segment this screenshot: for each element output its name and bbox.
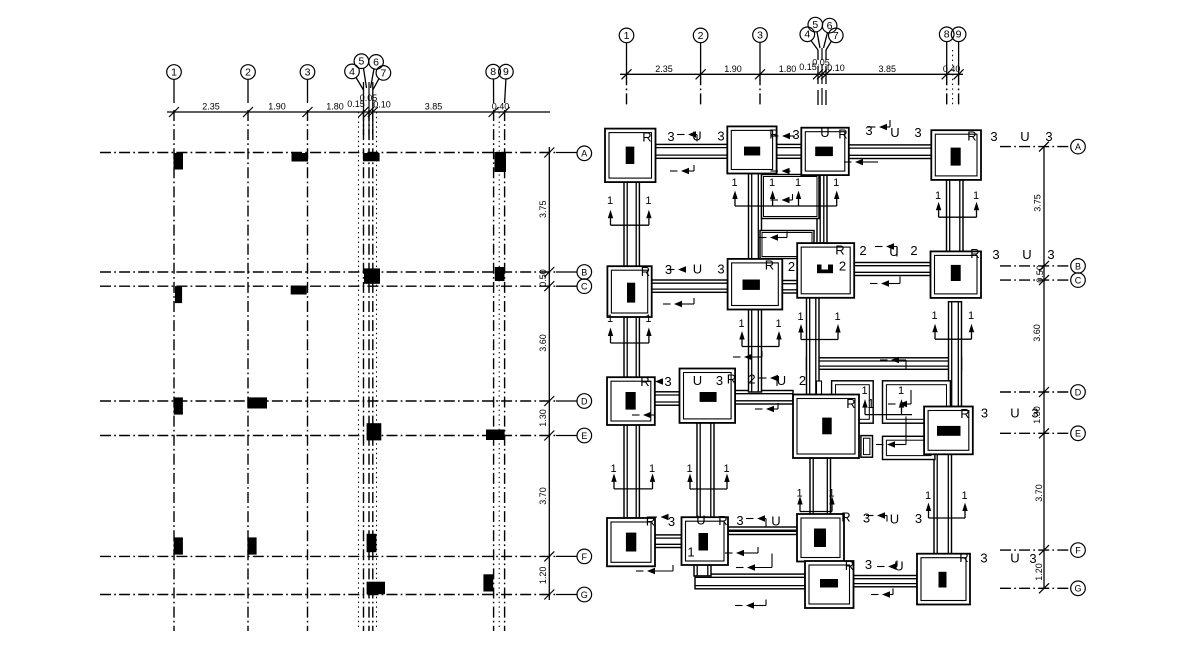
svg-text:2: 2 — [839, 259, 846, 274]
right plan grid bubble 6 — [822, 18, 837, 33]
left plan dimension tick — [303, 107, 313, 117]
beam loop between rows A-B grids 3-4/7 upper — [762, 175, 820, 219]
footing A4/7 — [801, 128, 849, 175]
svg-text:1: 1 — [925, 490, 931, 502]
right plan row F grid segment — [1000, 549, 1070, 551]
svg-text:3: 3 — [863, 511, 870, 526]
right plan right dimension line — [1043, 147, 1045, 588]
svg-text:B: B — [581, 267, 587, 277]
left plan grid lines 4-7 cluster (three close vertical lines) — [364, 82, 373, 631]
left plan column F4-7 — [367, 534, 377, 552]
svg-text:1.20: 1.20 — [538, 567, 548, 585]
svg-text:R: R — [959, 550, 968, 565]
svg-text:1: 1 — [607, 313, 613, 325]
leader arrow at loop row D-E — [888, 390, 911, 407]
svg-text:3: 3 — [980, 551, 987, 566]
left plan row F tick — [544, 551, 554, 561]
left plan grid bubble 1 — [167, 65, 182, 80]
beam stub at grid4/7 row D — [817, 381, 822, 397]
svg-text:1: 1 — [898, 385, 904, 397]
svg-text:1: 1 — [961, 490, 967, 502]
leader arrow at U beam F2-F4/7 — [746, 515, 766, 526]
svg-text:R: R — [765, 258, 774, 273]
svg-text:4: 4 — [804, 29, 810, 41]
right plan top dimension line — [620, 73, 963, 75]
svg-text:1.90: 1.90 — [724, 64, 742, 74]
beam loop row D-E left of grid8/9 upper-left — [832, 381, 874, 423]
left plan column D1 — [174, 397, 183, 414]
left plan column G4-7 — [367, 582, 385, 595]
svg-text:C: C — [1075, 276, 1082, 286]
svg-text:3: 3 — [1029, 551, 1036, 566]
left plan grid bubble 9 — [499, 64, 514, 79]
beam row D grid2-grid4/7 — [735, 391, 793, 405]
section mark 1-1 near footing R1 — [861, 385, 912, 415]
left plan grid line C (horizontal dash-dot) — [100, 285, 556, 287]
svg-text:3: 3 — [717, 262, 724, 277]
left plan column C1 — [175, 286, 182, 303]
footing B4/7 U2 column notch — [822, 265, 829, 270]
left plan column B4-7 — [364, 268, 380, 283]
svg-text:R: R — [967, 129, 976, 144]
left plan grid line A (horizontal dash-dot) — [100, 152, 556, 154]
svg-text:2: 2 — [698, 30, 704, 42]
svg-text:1: 1 — [968, 310, 974, 322]
left plan grid line 3 (vertical dash-dot) — [307, 110, 309, 631]
leader arrow rows A-B upper — [771, 168, 791, 174]
left plan slab edge dotted lines at cluster — [359, 112, 377, 630]
left plan grid line D (horizontal dash-dot) — [100, 400, 556, 402]
svg-text:1: 1 — [687, 545, 694, 560]
beam grid1 rowB-rowD — [624, 317, 639, 377]
leader arrow under beam row C — [663, 298, 694, 307]
beam row G grid4/7-grid8/9 — [854, 576, 918, 587]
left plan column A1 — [174, 153, 184, 170]
leader arrow above mid beam — [880, 357, 906, 369]
left plan grid line E (horizontal dash-dot) — [100, 435, 556, 437]
leader arrow bottom middle — [735, 600, 766, 609]
right plan row bubble B — [1071, 259, 1086, 274]
beam row B grid4/7-grid8/9 — [853, 263, 931, 276]
left plan dimension tick — [489, 107, 499, 117]
right plan row bubble A — [1071, 139, 1086, 154]
svg-text:1: 1 — [624, 30, 630, 42]
left plan grid line 9 (vertical dash-dot) — [504, 110, 506, 631]
left plan grid line G (horizontal dash-dot) — [100, 594, 556, 596]
section mark 1-1 on beam grid1 rowA-rowB — [607, 195, 652, 225]
footing F2 — [682, 517, 729, 565]
beam row D grid1-grid2 — [655, 392, 680, 405]
svg-text:R: R — [841, 510, 850, 525]
svg-text:3: 3 — [981, 406, 988, 421]
svg-text:R: R — [838, 127, 847, 142]
svg-text:8: 8 — [944, 29, 950, 41]
svg-text:3.85: 3.85 — [879, 64, 897, 74]
beam row C grid3-grid4/7 — [782, 281, 797, 294]
svg-text:3: 3 — [665, 262, 672, 277]
svg-text:U: U — [771, 514, 780, 529]
beam grid8/9 rowE-rowG — [934, 454, 952, 553]
left plan column A8-9 — [495, 152, 507, 172]
leader arrow near footing G4/7 bottom right — [871, 589, 893, 598]
svg-text:3: 3 — [305, 66, 311, 78]
svg-text:3.75: 3.75 — [1033, 194, 1043, 212]
footing B3 — [728, 259, 783, 310]
right plan grid bubble 4 — [800, 27, 815, 42]
beam row F grid2-grid4/7 — [728, 527, 797, 535]
right plan dimension tick — [755, 69, 765, 79]
beam grid4/7 rowD-rowF — [810, 458, 831, 514]
svg-text:2: 2 — [910, 243, 917, 258]
leader arrow in lower loop — [876, 417, 906, 448]
left plan grid bubble 2 — [241, 65, 256, 80]
svg-text:0.40: 0.40 — [943, 64, 961, 74]
beam row A grid4/7-grid8/9 — [849, 145, 932, 159]
svg-text:1: 1 — [797, 311, 803, 323]
svg-text:1: 1 — [769, 177, 775, 189]
footing B8/9 — [931, 251, 982, 298]
svg-text:E: E — [1075, 429, 1081, 439]
leader arrow row F right — [866, 512, 887, 521]
svg-text:F: F — [582, 552, 588, 562]
right plan row B grid segment — [1000, 265, 1070, 267]
right plan row D grid segment — [1000, 391, 1070, 393]
svg-text:2: 2 — [788, 259, 795, 274]
svg-text:G: G — [581, 590, 588, 600]
left plan grid bubble 8 — [486, 64, 501, 79]
svg-text:R: R — [846, 396, 855, 411]
right plan grid bubble 5 — [808, 17, 823, 32]
svg-text:U: U — [890, 512, 899, 527]
svg-text:3: 3 — [865, 123, 872, 138]
svg-text:1.80: 1.80 — [326, 102, 344, 112]
svg-text:3: 3 — [757, 29, 763, 41]
leader arrow under beam row B right — [870, 277, 900, 287]
svg-text:1.80: 1.80 — [779, 64, 797, 74]
svg-text:2: 2 — [859, 243, 866, 258]
svg-text:7: 7 — [833, 30, 839, 42]
right plan row E tick — [1039, 428, 1049, 438]
footing F4/7 — [797, 514, 844, 562]
svg-text:1: 1 — [686, 463, 692, 475]
svg-text:1: 1 — [645, 313, 651, 325]
svg-text:U: U — [820, 125, 829, 140]
svg-text:1: 1 — [607, 195, 613, 207]
leader arrow at footing D1 — [632, 412, 654, 418]
leader arrow right of beam row D — [755, 403, 778, 412]
svg-text:A: A — [581, 149, 587, 159]
section mark 1-1 on beam grid8/9 rowB-rowE — [931, 310, 974, 339]
svg-text:R: R — [646, 514, 655, 529]
svg-text:9: 9 — [503, 66, 509, 78]
right plan dimension ticks at cluster — [813, 69, 823, 79]
left plan column F1 — [174, 537, 183, 554]
right plan grid bubble 7 — [829, 28, 844, 43]
svg-text:C: C — [581, 282, 588, 292]
svg-text:R: R — [835, 243, 844, 258]
svg-text:U: U — [1010, 406, 1019, 421]
left plan row bubble D — [556, 400, 577, 402]
svg-text:3: 3 — [668, 514, 675, 529]
svg-text:3: 3 — [1047, 247, 1054, 262]
left plan grid bubble 3 — [300, 65, 315, 80]
beam loop row D-E left of grid8/9 upper-right — [883, 381, 951, 423]
section mark 1-1 on beam grid1 rowD-rowF — [610, 463, 655, 489]
right plan grid bubble 3 — [753, 28, 768, 43]
beam loop row D-E lower-left stub — [861, 436, 873, 458]
svg-text:2: 2 — [748, 372, 755, 387]
beam row A grid3-grid4/7 — [777, 144, 802, 158]
left plan grid line 8 (vertical dash-dot) — [493, 110, 495, 631]
left plan grid bubble 5 — [354, 54, 369, 69]
svg-text:3: 3 — [1031, 406, 1038, 421]
right plan row A grid segment — [1000, 146, 1070, 148]
right plan row G grid segment — [1000, 587, 1070, 589]
leader arrow under grid3 beam rowB-rowD — [733, 351, 762, 360]
left plan row bubble B — [556, 271, 577, 273]
svg-text:0.10: 0.10 — [373, 100, 391, 110]
left plan column B8-9 — [495, 267, 505, 281]
left plan grid line F (horizontal dash-dot) — [100, 555, 556, 557]
svg-text:3: 3 — [915, 511, 922, 526]
leader arrow row F left — [636, 565, 673, 574]
svg-text:R: R — [970, 246, 979, 261]
left plan row A tick — [544, 148, 554, 158]
section mark 1-1 on beam grid4/7 rowD-rowF — [796, 488, 834, 512]
right plan row C tick — [1039, 275, 1049, 285]
left plan dimension tick — [500, 107, 510, 117]
footing A3 — [727, 126, 776, 173]
svg-text:U: U — [777, 373, 786, 388]
svg-text:3: 3 — [667, 129, 674, 144]
left plan dimension tick — [243, 107, 253, 117]
right plan row bubble C — [1071, 273, 1086, 288]
leader arrow row A right of grid4/7 — [868, 120, 890, 130]
svg-text:3: 3 — [736, 513, 743, 528]
left plan column A3 — [292, 153, 309, 162]
right plan grid bubble 8 — [939, 27, 954, 42]
svg-text:3.75: 3.75 — [538, 200, 548, 218]
section mark 1-1 on beam grid2 rowD-rowF — [686, 463, 729, 489]
section mark 1-1 on beam grid3 rowB-rowD — [738, 318, 781, 347]
beam row G grid2-grid4/7 — [695, 574, 805, 589]
beam grid3 rowB-rowD — [749, 310, 762, 393]
left plan row bubble C — [556, 285, 577, 287]
svg-text:2: 2 — [799, 373, 806, 388]
svg-text:3.85: 3.85 — [425, 102, 443, 112]
left plan column F2 — [247, 537, 256, 554]
svg-text:0.50: 0.50 — [538, 269, 548, 287]
right plan dimension tick — [942, 69, 952, 79]
svg-text:3: 3 — [664, 374, 671, 389]
svg-text:U: U — [889, 244, 898, 259]
left plan row bubble A — [556, 152, 577, 154]
svg-text:0.50: 0.50 — [1035, 265, 1045, 283]
svg-text:1: 1 — [738, 318, 744, 330]
left plan dotted line between grids 8-9 — [498, 112, 500, 630]
right plan row G tick — [1039, 583, 1049, 593]
section mark 1-1 on beam grid4/7 rowB-rowD — [797, 311, 840, 340]
leader arrow row G at footing — [877, 561, 897, 570]
beam grid4/7 rowA-rowB — [817, 175, 827, 243]
beam grid2 rowF-rowG stub — [694, 564, 711, 576]
section mark 1-1 on beam grid8/9 rowE-rowG — [925, 490, 968, 518]
left plan top dimension line — [167, 111, 550, 113]
footing D1 — [607, 377, 655, 425]
beam grid1 rowA-rowB — [624, 182, 639, 266]
svg-text:1: 1 — [723, 463, 729, 475]
svg-text:F: F — [1075, 546, 1081, 556]
leader arrow at U beam D2-R1 — [759, 375, 778, 386]
svg-text:0.40: 0.40 — [492, 102, 510, 112]
leader arrow row F after footing F4/7 R — [650, 514, 669, 520]
left plan column A4-7 — [363, 153, 380, 161]
footing R1 — [793, 395, 859, 459]
svg-text:1: 1 — [171, 66, 177, 78]
beam grid4/7 rowB-rowD — [807, 298, 820, 395]
right plan grid lines 4-7 segments — [818, 48, 826, 105]
svg-text:3.60: 3.60 — [1032, 324, 1042, 342]
svg-text:U: U — [890, 125, 899, 140]
left plan column E8-9 — [486, 430, 505, 441]
svg-text:3: 3 — [717, 129, 724, 144]
svg-text:R: R — [727, 372, 736, 387]
left plan column G8-9 — [483, 574, 493, 591]
svg-text:U: U — [693, 373, 702, 388]
beam loop between rows A-B grids 3-4/7 lower — [760, 231, 814, 259]
leader arrow under beam A1-A3 — [670, 165, 694, 174]
svg-text:R: R — [642, 130, 651, 145]
beam grid8/9 rowB-rowE — [949, 302, 962, 407]
svg-text:6: 6 — [373, 56, 379, 68]
svg-text:3: 3 — [990, 129, 997, 144]
left plan grid line 2 (vertical dash-dot) — [247, 110, 249, 631]
svg-text:3: 3 — [914, 125, 921, 140]
beam grid8/9 rowA-rowB — [947, 180, 964, 252]
footing B1 — [607, 266, 651, 317]
svg-text:3: 3 — [716, 373, 723, 388]
left plan grid line B (horizontal dash-dot) — [100, 271, 556, 273]
right plan row D tick — [1039, 387, 1049, 397]
svg-text:U: U — [693, 262, 702, 277]
right plan dimension tick — [696, 69, 706, 79]
left plan row E tick — [544, 431, 554, 441]
svg-text:R: R — [769, 127, 778, 142]
beam row A grid1-grid3 — [656, 144, 728, 158]
left plan grid line 1 (vertical dash-dot) — [173, 110, 175, 631]
svg-text:1.30: 1.30 — [538, 409, 548, 427]
leader arrow rows A-B mid — [771, 194, 793, 203]
left plan column D2 — [247, 397, 267, 408]
svg-text:3: 3 — [792, 127, 799, 142]
svg-text:1: 1 — [796, 488, 802, 500]
svg-text:R: R — [641, 264, 650, 279]
footing G4/7 — [805, 561, 854, 608]
beam grid3 rowA-rowB — [749, 174, 762, 259]
svg-text:3.60: 3.60 — [538, 334, 548, 352]
footing A1 — [605, 129, 656, 183]
left plan grid bubble 4 — [345, 64, 360, 79]
svg-text:G: G — [1074, 584, 1081, 594]
leader arrow row G mid — [736, 554, 772, 571]
svg-text:2.35: 2.35 — [202, 102, 220, 112]
right plan dimension tick — [622, 69, 632, 79]
svg-text:R: R — [640, 374, 649, 389]
svg-text:R: R — [718, 513, 727, 528]
svg-text:1.90: 1.90 — [268, 102, 286, 112]
svg-text:1: 1 — [867, 396, 874, 411]
svg-text:U: U — [1022, 247, 1031, 262]
leader arrow row D after R — [644, 378, 663, 384]
svg-text:1: 1 — [828, 488, 834, 500]
left plan row C tick — [544, 281, 554, 291]
svg-text:1: 1 — [649, 463, 655, 475]
svg-text:1: 1 — [973, 190, 979, 202]
left plan row B tick — [544, 267, 554, 277]
svg-text:A: A — [1075, 142, 1081, 152]
right plan row bubble G — [1071, 581, 1086, 596]
right plan dotted line between grids 8-9 — [952, 50, 954, 105]
beam row F grid1-grid2 — [655, 535, 682, 548]
svg-text:U: U — [894, 559, 903, 574]
beam grid2 rowD-rowF — [697, 423, 714, 517]
svg-text:1: 1 — [834, 311, 840, 323]
svg-text:1: 1 — [931, 310, 937, 322]
svg-text:1: 1 — [833, 177, 839, 189]
left plan row bubble E — [556, 435, 577, 437]
footing D2 — [680, 369, 736, 423]
svg-text:1: 1 — [731, 177, 737, 189]
svg-text:B: B — [1075, 261, 1081, 271]
svg-text:1: 1 — [645, 195, 651, 207]
left plan row D tick — [544, 396, 554, 406]
left plan dimension tick — [169, 107, 179, 117]
svg-text:1: 1 — [935, 190, 941, 202]
leader arrow at U beam U2-B8/9 — [875, 243, 897, 256]
right plan row E grid segment — [1000, 432, 1070, 434]
svg-text:9: 9 — [956, 29, 962, 41]
right plan row bubble F — [1071, 543, 1086, 558]
svg-text:D: D — [581, 396, 588, 406]
svg-text:8: 8 — [490, 66, 496, 78]
svg-text:3.70: 3.70 — [538, 487, 548, 505]
leader arrow row A near U3 — [677, 131, 697, 141]
svg-text:D: D — [1075, 387, 1082, 397]
svg-text:0.10: 0.10 — [827, 63, 845, 73]
leader arrow rows A-B lower — [759, 232, 787, 241]
right plan row bubble E — [1071, 426, 1086, 441]
svg-text:U: U — [1020, 129, 1029, 144]
svg-text:2.35: 2.35 — [655, 64, 673, 74]
left plan grid bubble 6 — [369, 55, 384, 70]
right plan grid bubble 2 — [693, 28, 708, 43]
footing A8/9 — [931, 130, 981, 180]
svg-text:1: 1 — [610, 463, 616, 475]
footing E8/9 — [924, 407, 973, 455]
footing B4/7 U2 — [797, 243, 854, 298]
svg-text:R: R — [845, 558, 854, 573]
right plan row F tick — [1039, 545, 1049, 555]
svg-text:5: 5 — [812, 19, 818, 31]
svg-text:7: 7 — [380, 67, 386, 79]
svg-text:1: 1 — [795, 177, 801, 189]
svg-text:5: 5 — [358, 56, 364, 68]
right plan row C grid segment — [1000, 279, 1070, 281]
right plan grid bubble 1 — [619, 28, 634, 43]
svg-text:U: U — [1010, 551, 1019, 566]
svg-text:1: 1 — [775, 318, 781, 330]
svg-text:4: 4 — [349, 66, 355, 78]
